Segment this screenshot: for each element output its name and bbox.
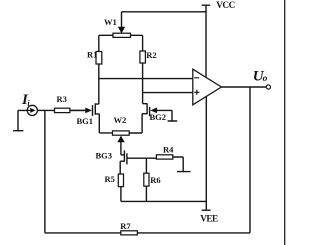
svg-text:BG2: BG2 [150, 112, 167, 122]
svg-text:R5: R5 [105, 174, 115, 184]
svg-text:R3: R3 [57, 94, 67, 104]
svg-text:R7: R7 [120, 221, 131, 231]
svg-text:VCC: VCC [216, 0, 234, 10]
svg-text:W2: W2 [114, 115, 127, 125]
svg-text:BG3: BG3 [96, 151, 113, 161]
svg-text:o: o [263, 74, 268, 84]
svg-text:R6: R6 [150, 175, 160, 185]
svg-text:BG1: BG1 [77, 116, 94, 126]
svg-text:VEE: VEE [200, 213, 218, 223]
svg-text:R4: R4 [163, 144, 174, 154]
svg-text:R2: R2 [146, 50, 156, 60]
svg-text:R1: R1 [87, 50, 97, 60]
svg-text:W1: W1 [104, 17, 117, 27]
